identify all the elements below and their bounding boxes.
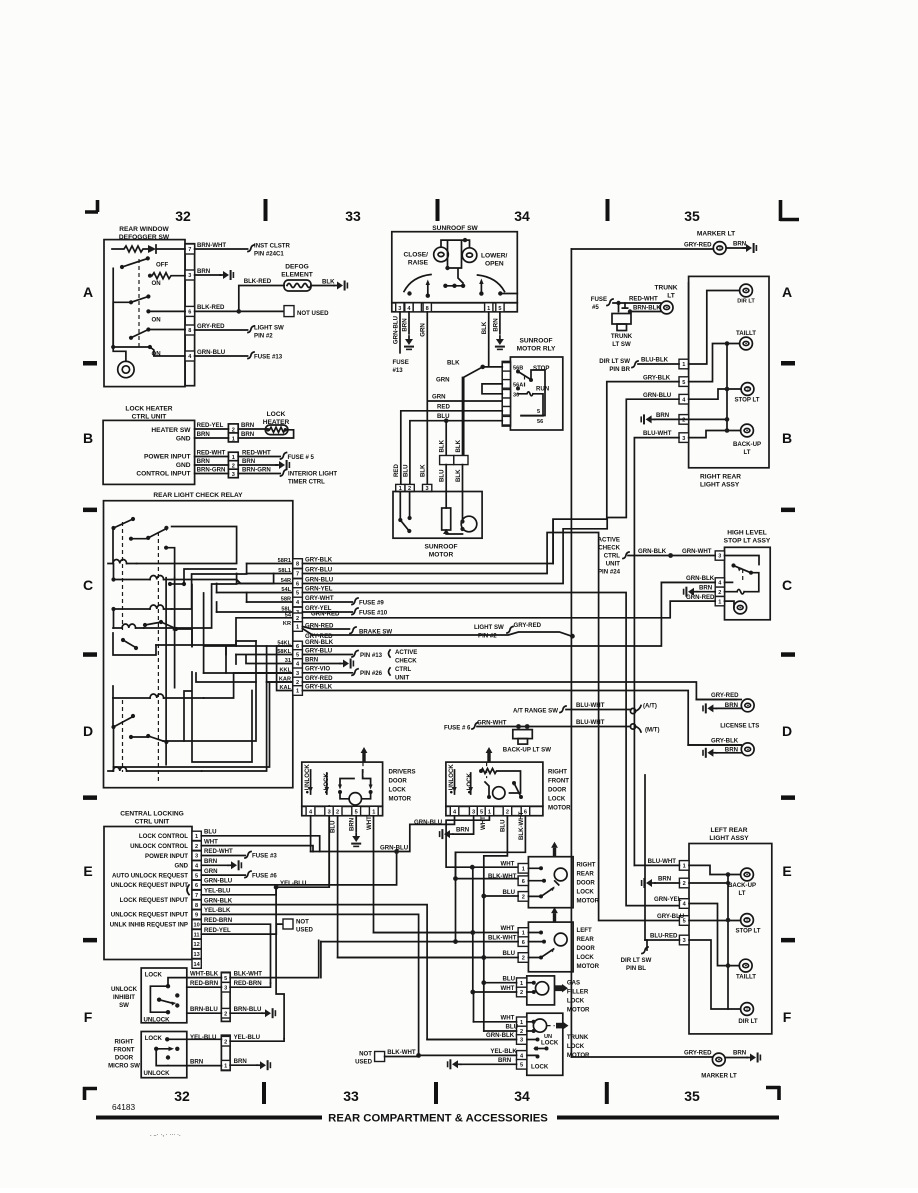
svg-text:BLK: BLK bbox=[420, 464, 427, 477]
wire BLK-RED pin6 to NOT USED bbox=[195, 304, 329, 317]
svg-text:LIGHT ASSY: LIGHT ASSY bbox=[700, 482, 740, 489]
power input wire FUSE 5 bbox=[195, 450, 315, 461]
svg-text:F: F bbox=[84, 1009, 93, 1025]
svg-text:GRY-BLK: GRY-BLK bbox=[643, 374, 671, 381]
svg-text:GRN-BLK: GRN-BLK bbox=[305, 639, 334, 646]
svg-text:SUNROOF: SUNROOF bbox=[425, 544, 458, 551]
relay connector group 1 bbox=[278, 558, 303, 631]
svg-text:FUSE #3: FUSE #3 bbox=[252, 853, 277, 860]
svg-text:CHECK: CHECK bbox=[395, 658, 417, 665]
svg-text:MOTOR RLY: MOTOR RLY bbox=[517, 346, 556, 353]
svg-text:LOCK: LOCK bbox=[541, 1039, 559, 1046]
svg-text:5: 5 bbox=[537, 409, 540, 415]
svg-text:2: 2 bbox=[232, 428, 235, 434]
lr dir lt bbox=[645, 775, 758, 1025]
svg-text:UNLOCK: UNLOCK bbox=[111, 986, 138, 993]
gry-red light sw wire bbox=[302, 622, 574, 640]
svg-text:MARKER LT: MARKER LT bbox=[701, 1073, 737, 1080]
left rear door lock motor bbox=[321, 852, 600, 977]
svg-text:BLK: BLK bbox=[455, 439, 462, 452]
svg-text:UNLOCK CONTROL: UNLOCK CONTROL bbox=[130, 843, 188, 850]
svg-text:DOOR: DOOR bbox=[389, 777, 408, 784]
svg-text:GRY-BLU: GRY-BLU bbox=[305, 566, 333, 573]
svg-text:UNLOCK REQUEST INPUT: UNLOCK REQUEST INPUT bbox=[111, 912, 188, 919]
wire grn-yel relay to left rear pin4 bbox=[302, 593, 689, 906]
svg-text:YEL-BLU: YEL-BLU bbox=[204, 888, 231, 895]
lr taillt bbox=[654, 896, 756, 980]
svg-text:BLK-WHT: BLK-WHT bbox=[234, 970, 263, 977]
svg-text:DOOR: DOOR bbox=[577, 945, 596, 952]
svg-text:6: 6 bbox=[195, 883, 198, 889]
svg-text:BACK-UP LT SW: BACK-UP LT SW bbox=[503, 747, 551, 754]
wire grn p5 fuse6 bbox=[201, 868, 277, 880]
svg-text:BRN: BRN bbox=[733, 241, 746, 248]
svg-text:56: 56 bbox=[537, 419, 543, 425]
svg-text:GRN-BLK: GRN-BLK bbox=[486, 1032, 515, 1039]
svg-text:10: 10 bbox=[193, 923, 199, 929]
svg-text:UNIT: UNIT bbox=[395, 675, 409, 682]
svg-text:LICENSE LTS: LICENSE LTS bbox=[720, 722, 759, 729]
svg-text:BLK: BLK bbox=[455, 469, 462, 482]
relay internals bbox=[108, 517, 293, 782]
svg-text:2: 2 bbox=[522, 895, 525, 901]
svg-text:MOTOR: MOTOR bbox=[429, 552, 454, 559]
svg-text:UNLOCK REQUEST INPUT: UNLOCK REQUEST INPUT bbox=[111, 882, 188, 889]
svg-text:BLK: BLK bbox=[322, 278, 335, 285]
svg-text:2: 2 bbox=[683, 881, 686, 887]
svg-text:GRY-BLK: GRY-BLK bbox=[711, 738, 739, 745]
svg-text:BRN: BRN bbox=[242, 458, 255, 465]
svg-text:GRY-RED: GRY-RED bbox=[684, 1050, 712, 1057]
svg-text:BRN-BLU: BRN-BLU bbox=[190, 1006, 218, 1013]
svg-text:RED-BRN: RED-BRN bbox=[234, 980, 262, 987]
svg-text:USED: USED bbox=[296, 927, 314, 934]
defog element circuit bbox=[239, 264, 348, 312]
svg-text:5: 5 bbox=[480, 810, 483, 816]
svg-text:GRN-WHT: GRN-WHT bbox=[682, 548, 712, 555]
svg-text:PIN #2: PIN #2 bbox=[478, 633, 497, 640]
svg-text:1: 1 bbox=[682, 362, 685, 368]
svg-text:HIGH LEVEL: HIGH LEVEL bbox=[727, 530, 767, 537]
svg-text:BRN-BLK: BRN-BLK bbox=[633, 304, 661, 311]
svg-text:WHT: WHT bbox=[366, 816, 373, 830]
wire gry-blk to rr pin5 bbox=[553, 374, 679, 563]
svg-text:D: D bbox=[83, 723, 93, 739]
rr back-up lt bbox=[689, 424, 761, 456]
svg-text:YEL-BLK: YEL-BLK bbox=[490, 1048, 517, 1055]
svg-text:MICRO SW: MICRO SW bbox=[108, 1063, 140, 1070]
svg-text:7: 7 bbox=[296, 572, 299, 578]
svg-text:DIR LT: DIR LT bbox=[737, 299, 755, 305]
svg-text:FUSE # 5: FUSE # 5 bbox=[288, 454, 315, 461]
svg-text:ON: ON bbox=[152, 280, 161, 287]
svg-text:BRN-GRN: BRN-GRN bbox=[197, 467, 226, 474]
svg-text:2: 2 bbox=[232, 464, 235, 470]
svg-text:REAR COMPARTMENT & ACCESSORIES: REAR COMPARTMENT & ACCESSORIES bbox=[328, 1113, 548, 1125]
svg-text:GRN-BLU: GRN-BLU bbox=[204, 878, 233, 885]
svg-text:LOCK CONTROL: LOCK CONTROL bbox=[139, 833, 188, 840]
svg-text:WHT: WHT bbox=[501, 985, 515, 992]
svg-text:RED-WHT: RED-WHT bbox=[197, 450, 226, 457]
wire brn ground high level pin2 bbox=[683, 584, 715, 596]
svg-text:E: E bbox=[83, 863, 92, 879]
rear window defogger switch bbox=[104, 226, 195, 387]
svg-text:CTRL UNIT: CTRL UNIT bbox=[132, 414, 167, 421]
svg-text:ACTIVE: ACTIVE bbox=[395, 649, 417, 656]
gnd wire bbox=[195, 458, 291, 470]
svg-text:DRIVERS: DRIVERS bbox=[389, 768, 416, 775]
svg-text:BLU-RED: BLU-RED bbox=[650, 933, 678, 940]
svg-text:GRY-BLK: GRY-BLK bbox=[305, 683, 333, 690]
svg-text:LOCK: LOCK bbox=[145, 1035, 163, 1042]
svg-text:2: 2 bbox=[718, 590, 721, 596]
svg-text:LOCK: LOCK bbox=[267, 411, 286, 418]
svg-text:STOP LT: STOP LT bbox=[734, 397, 759, 404]
svg-text:GRN-BLU: GRN-BLU bbox=[380, 845, 409, 852]
svg-text:BLK: BLK bbox=[447, 359, 460, 366]
wire grn-blu p6 bbox=[201, 852, 396, 885]
right front motor wires bbox=[311, 811, 526, 992]
svg-text:DIR LT: DIR LT bbox=[738, 1018, 757, 1025]
relay group2 wires bbox=[302, 582, 741, 745]
svg-text:GRN-BLU: GRN-BLU bbox=[197, 349, 226, 356]
svg-text:LOCK: LOCK bbox=[567, 997, 585, 1004]
svg-text:FUSE #9: FUSE #9 bbox=[359, 599, 384, 606]
relay connector group 2 bbox=[277, 641, 302, 696]
svg-text:1: 1 bbox=[520, 981, 523, 987]
svg-text:SUNROOF: SUNROOF bbox=[520, 338, 553, 345]
svg-text:BRN: BRN bbox=[725, 702, 738, 709]
wire grn-blk p8 bbox=[201, 897, 518, 1039]
svg-text:BLU-BLK: BLU-BLK bbox=[641, 357, 669, 364]
fuse 10 fork bbox=[302, 608, 387, 616]
svg-text:DOOR: DOOR bbox=[548, 786, 567, 793]
svg-text:34: 34 bbox=[514, 1088, 530, 1104]
sunroof motor relay bbox=[502, 338, 563, 431]
svg-text:GAS: GAS bbox=[567, 979, 580, 986]
svg-text:RED-BRN: RED-BRN bbox=[204, 917, 232, 924]
svg-text:BLU: BLU bbox=[503, 975, 516, 982]
svg-text:BRN: BRN bbox=[197, 268, 210, 275]
svg-text:UNIT: UNIT bbox=[606, 561, 620, 568]
svg-text:RED-YEL: RED-YEL bbox=[197, 422, 224, 429]
svg-text:BLK: BLK bbox=[481, 321, 488, 334]
svg-text:(M/T): (M/T) bbox=[645, 727, 660, 734]
svg-text:FILLER: FILLER bbox=[567, 988, 589, 995]
svg-text:1: 1 bbox=[296, 625, 299, 631]
svg-text:5: 5 bbox=[498, 306, 501, 312]
left rear light assy bbox=[679, 827, 771, 1034]
svg-text:GRY-BLU: GRY-BLU bbox=[657, 913, 685, 920]
svg-text:BRN: BRN bbox=[658, 876, 671, 883]
svg-text:BLK-WHT: BLK-WHT bbox=[387, 1049, 416, 1056]
drivers motor wires bbox=[311, 816, 484, 958]
svg-text:MOTOR: MOTOR bbox=[577, 963, 600, 970]
svg-text:3: 3 bbox=[682, 436, 685, 442]
svg-text:INHIBIT: INHIBIT bbox=[113, 994, 135, 1001]
dir lt sw pin bl bbox=[621, 940, 652, 972]
svg-text:BRN: BRN bbox=[725, 746, 738, 753]
svg-text:33: 33 bbox=[343, 1088, 359, 1104]
rr brn ground bbox=[640, 412, 729, 424]
svg-text:LOCK REQUEST INPUT: LOCK REQUEST INPUT bbox=[120, 897, 189, 904]
svg-text:OPEN: OPEN bbox=[485, 261, 504, 268]
svg-text:9: 9 bbox=[195, 913, 198, 919]
svg-text:UNLOCK: UNLOCK bbox=[144, 1070, 171, 1077]
svg-text:8: 8 bbox=[195, 903, 198, 909]
brake sw wire bbox=[302, 627, 392, 636]
svg-text:A/T RANGE SW: A/T RANGE SW bbox=[513, 708, 558, 715]
svg-text:GRN-WHT: GRN-WHT bbox=[477, 719, 507, 726]
svg-text:BRN: BRN bbox=[197, 458, 210, 465]
svg-text:LIGHT SW: LIGHT SW bbox=[254, 324, 284, 331]
wire BRN pin3 to ground bbox=[195, 268, 235, 280]
svg-text:BRN: BRN bbox=[402, 318, 409, 331]
svg-text:GRY-RED: GRY-RED bbox=[197, 323, 225, 330]
trunk lock motor bbox=[416, 958, 590, 1076]
svg-text:BRN: BRN bbox=[733, 1050, 746, 1057]
svg-text:DIR LT SW: DIR LT SW bbox=[621, 957, 652, 964]
svg-text:LOCK: LOCK bbox=[567, 1043, 585, 1050]
svg-text:3: 3 bbox=[232, 472, 235, 478]
lr brn gnd bbox=[641, 875, 730, 1010]
svg-text:14: 14 bbox=[193, 962, 200, 968]
svg-text:2: 2 bbox=[224, 1011, 227, 1017]
sunroof motor bbox=[393, 464, 482, 559]
svg-text:PIN #13: PIN #13 bbox=[360, 652, 383, 659]
svg-text:(A/T): (A/T) bbox=[643, 703, 657, 710]
svg-text:GND: GND bbox=[176, 436, 191, 443]
svg-text:BLU: BLU bbox=[439, 469, 446, 482]
svg-text:DOOR: DOOR bbox=[577, 880, 596, 887]
a/t range sw bbox=[513, 702, 660, 734]
svg-text:POWER INPUT: POWER INPUT bbox=[144, 454, 191, 461]
svg-text:CONTROL INPUT: CONTROL INPUT bbox=[136, 471, 190, 478]
svg-text:GRY-VIO: GRY-VIO bbox=[305, 666, 330, 673]
defogger internals bbox=[111, 245, 185, 378]
wire grn-blu to rr pin4 bbox=[302, 392, 679, 584]
svg-text:1: 1 bbox=[522, 931, 525, 937]
svg-text:WHT-BLK: WHT-BLK bbox=[190, 970, 219, 977]
svg-text:BLU-WHT: BLU-WHT bbox=[648, 858, 677, 865]
svg-text:3: 3 bbox=[188, 273, 191, 279]
lr back-up lt bbox=[634, 858, 756, 897]
page frame bbox=[83, 199, 799, 1138]
relay wire labels group1 bbox=[305, 556, 340, 640]
svg-text:FUSE: FUSE bbox=[591, 296, 607, 303]
svg-text:WHT: WHT bbox=[501, 861, 515, 868]
svg-text:BRN: BRN bbox=[197, 431, 210, 438]
svg-text:5: 5 bbox=[224, 976, 227, 982]
svg-text:5: 5 bbox=[296, 653, 299, 659]
drivers motor pins bbox=[302, 806, 383, 815]
svg-text:LEFT: LEFT bbox=[577, 927, 593, 934]
svg-text:FUSE #10: FUSE #10 bbox=[359, 609, 388, 616]
svg-text:PIN #26: PIN #26 bbox=[360, 670, 383, 677]
svg-text:35: 35 bbox=[684, 208, 700, 224]
svg-text:12: 12 bbox=[193, 942, 199, 948]
svg-text:C: C bbox=[83, 577, 93, 593]
svg-text:STOP LT: STOP LT bbox=[735, 928, 760, 935]
red-brn wire bbox=[187, 980, 271, 987]
svg-text:MOTOR: MOTOR bbox=[548, 804, 571, 811]
control input wire bbox=[195, 467, 338, 486]
svg-text:REAR WINDOW: REAR WINDOW bbox=[119, 226, 169, 233]
svg-text:PIN #24: PIN #24 bbox=[598, 569, 621, 576]
wire red-brn p10 bbox=[201, 917, 270, 983]
central locking ctrl unit bbox=[104, 811, 201, 969]
svg-text:6: 6 bbox=[522, 940, 525, 946]
yel-blu wire micro bbox=[167, 1034, 284, 1041]
wire BRN-WHT pin7 to INST CLSTR bbox=[195, 242, 291, 258]
svg-text:6: 6 bbox=[296, 582, 299, 588]
lr stop lt bbox=[657, 913, 761, 934]
svg-text:3: 3 bbox=[683, 938, 686, 944]
svg-text:GRY-RED: GRY-RED bbox=[305, 675, 333, 682]
svg-text:RED-WHT: RED-WHT bbox=[242, 450, 271, 457]
svg-text:CHECK: CHECK bbox=[598, 545, 620, 552]
svg-text:●LOCK: ●LOCK bbox=[466, 772, 473, 794]
svg-text:TRUNK: TRUNK bbox=[654, 285, 677, 292]
svg-text:STOP: STOP bbox=[533, 365, 549, 372]
svg-text:BRN: BRN bbox=[656, 412, 669, 419]
wire GRY-RED pin8 to LIGHT SW bbox=[195, 323, 284, 340]
svg-text:CENTRAL LOCKING: CENTRAL LOCKING bbox=[120, 811, 184, 818]
svg-text:PIN BL: PIN BL bbox=[626, 965, 646, 972]
svg-text:KR: KR bbox=[283, 621, 291, 627]
svg-text:DIR LT SW: DIR LT SW bbox=[599, 358, 630, 365]
dir lt sw pin br bbox=[599, 357, 679, 374]
svg-text:BLU: BLU bbox=[330, 820, 337, 833]
svg-text:BLK: BLK bbox=[439, 439, 446, 452]
svg-text:FUSE #6: FUSE #6 bbox=[252, 872, 277, 879]
svg-text:GRN: GRN bbox=[432, 393, 446, 400]
svg-text:BACK-UP: BACK-UP bbox=[733, 441, 761, 448]
svg-text:BLU: BLU bbox=[500, 819, 507, 832]
svg-text:LEFT REAR: LEFT REAR bbox=[711, 827, 748, 834]
svg-text:TIMER CTRL: TIMER CTRL bbox=[288, 478, 325, 485]
rly input wires bbox=[401, 359, 503, 484]
svg-text:RED: RED bbox=[393, 464, 400, 477]
svg-text:32: 32 bbox=[175, 208, 191, 224]
svg-text:BRN: BRN bbox=[349, 818, 356, 831]
svg-text:1: 1 bbox=[296, 689, 299, 695]
svg-text:RIGHT: RIGHT bbox=[548, 768, 567, 775]
svg-text:5: 5 bbox=[195, 873, 198, 879]
svg-text:6: 6 bbox=[522, 879, 525, 885]
svg-text:35: 35 bbox=[684, 1088, 700, 1104]
svg-text:8: 8 bbox=[296, 562, 299, 568]
svg-text:2: 2 bbox=[195, 844, 198, 850]
svg-text:FRONT: FRONT bbox=[114, 1047, 135, 1054]
svg-text:LOCK: LOCK bbox=[548, 795, 566, 802]
svg-text:#5: #5 bbox=[592, 304, 599, 311]
svg-text:3: 3 bbox=[472, 810, 475, 816]
svg-text:LT: LT bbox=[739, 890, 746, 897]
svg-text:GND: GND bbox=[174, 863, 188, 870]
svg-text:RAISE: RAISE bbox=[408, 260, 429, 267]
svg-text:BRN: BRN bbox=[699, 584, 712, 591]
svg-text:BLK-RED: BLK-RED bbox=[197, 304, 225, 311]
svg-text:GRY-BLU: GRY-BLU bbox=[305, 647, 333, 654]
svg-text:YEL-BLU: YEL-BLU bbox=[280, 880, 307, 887]
right front door lock motor bbox=[446, 747, 571, 811]
svg-text:BRN: BRN bbox=[498, 1057, 511, 1064]
svg-text:3: 3 bbox=[195, 854, 198, 860]
svg-text:TRUNK: TRUNK bbox=[567, 1034, 589, 1041]
svg-text:3: 3 bbox=[328, 810, 331, 816]
lock heater connector upper bbox=[195, 422, 239, 443]
svg-text:RIGHT: RIGHT bbox=[577, 862, 596, 869]
svg-text:BRN-BLU: BRN-BLU bbox=[234, 1006, 262, 1013]
svg-text:RED-BRN: RED-BRN bbox=[190, 980, 218, 987]
unlock inhibit sw bbox=[111, 968, 187, 1024]
fuse 9 fork bbox=[302, 598, 384, 606]
rr stop lt bbox=[689, 383, 760, 404]
svg-text:3: 3 bbox=[296, 671, 299, 677]
svg-text:BLU: BLU bbox=[403, 464, 410, 477]
svg-text:34: 34 bbox=[514, 208, 530, 224]
svg-text:GRN: GRN bbox=[204, 868, 218, 875]
svg-text:MOTOR: MOTOR bbox=[389, 795, 412, 802]
svg-text:TRUNK: TRUNK bbox=[611, 333, 633, 340]
rear light check relay box bbox=[104, 492, 293, 788]
svg-text:1: 1 bbox=[488, 810, 491, 816]
svg-text:HEATER SW: HEATER SW bbox=[151, 427, 191, 434]
wire grn-red high level pin1 bbox=[302, 594, 715, 618]
not used bottom bbox=[355, 1049, 419, 1066]
brn-blu wire bbox=[187, 1006, 276, 1018]
svg-text:BRN-WHT: BRN-WHT bbox=[197, 242, 226, 249]
svg-text:5: 5 bbox=[296, 591, 299, 597]
svg-text:BRN-GRN: BRN-GRN bbox=[242, 467, 271, 474]
svg-text:BLU-WHT: BLU-WHT bbox=[576, 702, 605, 709]
svg-text:WHT: WHT bbox=[501, 925, 515, 932]
wire gry-blk jog to relay bbox=[302, 519, 606, 563]
marker lt bottom bbox=[571, 1050, 761, 1080]
svg-text:POWER INPUT: POWER INPUT bbox=[145, 853, 188, 860]
svg-text:7: 7 bbox=[195, 893, 198, 899]
svg-text:RED-WHT: RED-WHT bbox=[204, 848, 233, 855]
svg-text:BRN: BRN bbox=[305, 656, 318, 663]
svg-text:ON: ON bbox=[152, 351, 161, 358]
svg-text:YEL-BLU: YEL-BLU bbox=[234, 1034, 261, 1041]
sunroof motor inline connectors bbox=[439, 439, 469, 491]
svg-text:BACK-UP: BACK-UP bbox=[728, 882, 756, 889]
svg-text:LIGHT ASSY: LIGHT ASSY bbox=[709, 835, 749, 842]
wire gry-blu jog to relay bbox=[302, 533, 679, 921]
lock heater element bbox=[238, 411, 293, 438]
svg-text:6: 6 bbox=[188, 310, 191, 316]
svg-text:LT: LT bbox=[667, 293, 675, 300]
svg-text:3: 3 bbox=[398, 306, 401, 312]
svg-text:5: 5 bbox=[682, 380, 685, 386]
svg-text:INTERIOR LIGHT: INTERIOR LIGHT bbox=[288, 470, 337, 477]
svg-text:REAR: REAR bbox=[577, 871, 595, 878]
svg-text:BLU-WHT: BLU-WHT bbox=[576, 719, 605, 726]
svg-text:DOOR: DOOR bbox=[115, 1055, 134, 1062]
lock heater ctrl unit bbox=[103, 406, 195, 485]
wire red-yel p11 bbox=[201, 919, 313, 935]
svg-text:11: 11 bbox=[194, 932, 200, 938]
wire yel-blu p7 bbox=[201, 806, 329, 1039]
gas filler lock motor bbox=[470, 975, 590, 1013]
svg-text:YEL-BLU: YEL-BLU bbox=[190, 1034, 217, 1041]
drivers door lock motor bbox=[302, 747, 416, 806]
svg-text:1: 1 bbox=[520, 1020, 523, 1026]
svg-text:PIN #2: PIN #2 bbox=[254, 332, 273, 339]
svg-text:SW: SW bbox=[119, 1002, 129, 1009]
